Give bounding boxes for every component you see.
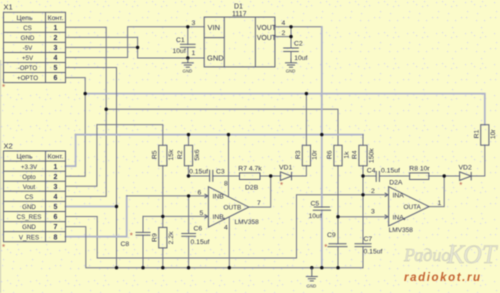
D1 labels <box>207 4 277 63</box>
ground under C1 <box>182 58 194 67</box>
resistor R4 labels <box>352 148 376 163</box>
svg-text:3: 3 <box>192 20 196 27</box>
capacitor C3 <box>210 170 213 182</box>
svg-text:R8 10r: R8 10r <box>409 165 430 172</box>
svg-text:5k6: 5k6 <box>194 149 201 160</box>
svg-text:Конт.: Конт. <box>48 15 64 22</box>
wire R3 top <box>305 94 307 146</box>
wire C4 right to R8 <box>379 175 409 177</box>
capacitor C1 <box>180 44 196 47</box>
resistor R7 <box>240 173 261 180</box>
svg-text:5: 5 <box>200 210 204 217</box>
capacitor C1 value <box>173 37 186 55</box>
wire GND X2.5 <box>66 206 117 208</box>
wire R2 bottom to C3 <box>189 166 210 176</box>
svg-text:КОТ: КОТ <box>446 240 498 269</box>
svg-text:D1: D1 <box>234 4 243 11</box>
svg-text:10uf: 10uf <box>173 48 186 55</box>
svg-text:2: 2 <box>54 35 58 42</box>
resistor R6 <box>334 145 342 166</box>
svg-text:C4: C4 <box>367 167 376 174</box>
svg-text:R2: R2 <box>177 150 184 159</box>
svg-text:GND: GND <box>22 224 36 231</box>
wire V_RES X2.8 to D2B pin6 <box>66 196 127 237</box>
scan edge artifact <box>0 60 1 293</box>
svg-text:6: 6 <box>54 214 58 221</box>
resistor R6 labels <box>327 150 351 159</box>
svg-text:3: 3 <box>54 45 58 52</box>
svg-text:10r: 10r <box>490 129 497 140</box>
resistor R2 labels <box>177 149 201 160</box>
capacitor C4 <box>376 171 379 182</box>
svg-text:C3: C3 <box>216 168 225 175</box>
svg-text:OUTA: OUTA <box>404 204 422 211</box>
svg-text:2: 2 <box>371 188 375 195</box>
svg-text:+: + <box>403 217 406 223</box>
wire INB- into pin 6 <box>127 195 207 197</box>
wire OPTO bus to R1 top <box>85 94 485 125</box>
svg-text:+5V: +5V <box>22 55 34 62</box>
op-amp D2B labels <box>213 184 260 226</box>
X1 pin numbers <box>54 25 58 82</box>
wire C2 riser <box>290 27 292 48</box>
svg-text:LMV358: LMV358 <box>389 227 414 234</box>
wire R7 right to VD1 anode <box>260 175 280 177</box>
svg-text:X2: X2 <box>4 142 13 151</box>
wire -OPTO X1.5 down to gnd rail <box>66 68 117 268</box>
svg-text:D2B: D2B <box>245 184 259 191</box>
svg-text:GND: GND <box>183 68 193 73</box>
svg-text:Цепь: Цепь <box>16 154 32 161</box>
svg-text:0.15uf: 0.15uf <box>381 167 400 174</box>
watermark Radio KOT <box>403 240 498 269</box>
capacitor C8 <box>136 232 151 235</box>
wire INB+ line <box>143 215 207 217</box>
capacitor C7 <box>355 244 372 247</box>
svg-text:0.15uf: 0.15uf <box>191 239 210 246</box>
svg-text:C1: C1 <box>176 37 185 44</box>
wire CS net to R6 top <box>106 109 338 145</box>
capacitor C5 <box>313 207 331 210</box>
svg-text:1117: 1117 <box>232 11 247 18</box>
svg-text:C5: C5 <box>311 200 320 207</box>
svg-text:*: * <box>280 181 283 190</box>
svg-text:R7 4.7k: R7 4.7k <box>238 165 262 172</box>
wire C9 bottom <box>337 247 339 268</box>
wire +3.3V bus to R4 top <box>76 134 363 136</box>
wire GND X1.2 to D1 GND <box>66 37 205 58</box>
wire VD2 cathode to R1 bottom <box>471 145 485 176</box>
svg-text:Opto: Opto <box>22 174 36 181</box>
wire C9 top riser <box>337 217 339 244</box>
svg-text:Vout: Vout <box>23 184 36 191</box>
X1 net names <box>17 25 38 82</box>
wire op-amp pin4 down <box>228 217 230 267</box>
capacitor C6 <box>181 234 196 237</box>
wire +3.3V X2.1 up <box>66 135 76 167</box>
svg-text:1: 1 <box>54 25 58 32</box>
svg-text:*: * <box>2 83 5 92</box>
svg-text:3: 3 <box>54 184 58 191</box>
svg-text:6: 6 <box>54 75 58 82</box>
capacitor C2 value <box>294 40 308 62</box>
svg-text:10uf: 10uf <box>309 213 322 220</box>
X2 net names <box>17 164 42 242</box>
svg-text:VIN: VIN <box>208 23 221 32</box>
wire CS_RES X2.6 to D2A pin2 <box>66 195 387 258</box>
X1 header <box>16 15 63 22</box>
wire C7 bottom <box>362 247 364 268</box>
svg-text:8: 8 <box>54 234 58 241</box>
op-amp D2B pin numbers <box>198 181 262 232</box>
ground under C2 <box>285 59 297 68</box>
resistor R2 <box>184 145 192 166</box>
svg-text:INB: INB <box>213 194 225 201</box>
svg-text:*: * <box>2 243 5 252</box>
resistor R3 labels <box>295 149 319 160</box>
svg-text:Радио: Радио <box>403 245 450 265</box>
svg-text:1: 1 <box>438 200 442 207</box>
svg-text:5: 5 <box>54 65 58 72</box>
svg-text:VD1: VD1 <box>279 164 292 171</box>
svg-text:GND: GND <box>21 35 35 42</box>
svg-text:+3.3V: +3.3V <box>21 164 38 171</box>
svg-text:4: 4 <box>54 55 58 62</box>
wire R5 bottom to node <box>162 166 164 217</box>
svg-text:R4: R4 <box>352 150 359 159</box>
wire R9 bottom <box>162 248 164 268</box>
wire VD1 cathode to R3 bottom <box>292 166 307 176</box>
svg-text:2.2k: 2.2k <box>168 231 175 244</box>
wire node to D2A pin3 <box>338 216 387 218</box>
svg-text:Цепь: Цепь <box>16 15 32 22</box>
svg-text:C8: C8 <box>121 241 130 248</box>
svg-text:10r: 10r <box>312 149 319 160</box>
svg-text:CS: CS <box>23 25 32 32</box>
wire OUTA pin1 up <box>429 176 444 207</box>
connector X2 table <box>4 151 66 242</box>
svg-text:CS: CS <box>25 194 34 201</box>
wire op-amp pin8 supply <box>228 135 230 197</box>
capacitor C5 labels <box>309 200 322 220</box>
wire C6 top riser <box>188 196 190 234</box>
wire C6 bottom <box>188 236 190 267</box>
svg-text:1k: 1k <box>343 151 350 159</box>
svg-text:R1: R1 <box>474 129 481 138</box>
wire R9 top stub <box>162 216 164 227</box>
connector X1 table <box>4 12 66 82</box>
svg-text:Конт.: Конт. <box>48 154 64 161</box>
resistor R9 labels <box>152 231 176 244</box>
svg-text:X1: X1 <box>4 3 13 12</box>
svg-text:0.15uf: 0.15uf <box>189 168 208 175</box>
X2 header <box>16 154 63 161</box>
wire C1 bottom stub <box>187 47 189 58</box>
wire node to C4 left <box>363 175 376 177</box>
resistor R1 labels <box>474 129 498 140</box>
svg-text:C6: C6 <box>194 225 203 232</box>
svg-text:V_RES: V_RES <box>19 234 39 241</box>
svg-text:+OPTO: +OPTO <box>17 75 38 82</box>
svg-text:10uf: 10uf <box>294 55 307 62</box>
wire R2 top stub <box>188 135 190 146</box>
svg-text:+: + <box>223 217 226 223</box>
resistor R4 <box>359 145 367 166</box>
svg-text:R9: R9 <box>152 233 159 242</box>
diode VD1 <box>280 172 291 181</box>
svg-text:C7: C7 <box>364 236 373 243</box>
capacitor C2 <box>283 48 299 52</box>
svg-text:D2A: D2A <box>389 179 403 186</box>
svg-text:R3: R3 <box>295 150 302 159</box>
capacitor C9 <box>328 244 348 247</box>
svg-text:LMV358: LMV358 <box>235 219 260 226</box>
svg-text:*: * <box>459 181 462 190</box>
wire OUTB pin7 up <box>249 176 271 207</box>
svg-text:0.15uf: 0.15uf <box>364 248 383 255</box>
resistor R5 labels <box>152 149 176 161</box>
svg-text:GND: GND <box>307 283 317 288</box>
wire +5V X1.4 to D1 VIN <box>66 27 205 58</box>
wire Vout X2.3 to R5 top <box>66 125 163 187</box>
svg-text:1: 1 <box>192 50 196 57</box>
svg-text:15k: 15k <box>168 149 175 161</box>
capacitor C7 labels <box>364 236 383 256</box>
svg-text:VOUT: VOUT <box>257 25 277 32</box>
resistor R3 <box>302 145 310 166</box>
svg-text:*: * <box>130 232 133 241</box>
svg-text:8: 8 <box>224 181 228 188</box>
svg-text:GND: GND <box>22 204 36 211</box>
wire R8 to VD2 anode <box>429 175 460 177</box>
capacitor C4 labels <box>367 167 400 174</box>
capacitor C3 labels <box>189 168 225 175</box>
svg-text:radiokot.ru: radiokot.ru <box>404 272 482 284</box>
wire X2.2 Opto up <box>66 94 86 177</box>
wire C5 bottom to gnd rail <box>321 210 323 267</box>
wire R6 bottom to node <box>337 166 339 217</box>
svg-text:INA: INA <box>393 192 405 199</box>
svg-text:7: 7 <box>54 224 58 231</box>
regulator D1 1117 box <box>204 17 275 67</box>
wire R4 bottom chain <box>362 166 364 244</box>
svg-text:2: 2 <box>54 174 58 181</box>
svg-text:*: * <box>324 243 327 252</box>
resistor R5 <box>159 145 167 166</box>
svg-text:VD2: VD2 <box>459 164 472 171</box>
op-amp U D2B triangle <box>205 187 249 228</box>
resistor R9 <box>159 227 167 248</box>
wire C8 top riser <box>142 216 144 232</box>
wire C3 right to R7 left <box>213 175 240 177</box>
svg-text:3: 3 <box>371 208 375 215</box>
op-amp U D2A triangle <box>385 187 429 226</box>
svg-text:4: 4 <box>224 224 228 231</box>
wire C2 bottom stub <box>290 52 292 59</box>
wire VOUT down to C5 <box>321 27 323 207</box>
svg-text:7: 7 <box>257 200 261 207</box>
wire -5V X1.3 join <box>66 46 138 48</box>
wire D1 VOUT pin2 <box>275 36 291 38</box>
svg-text:4: 4 <box>282 20 286 27</box>
capacitor C6 labels <box>191 225 210 246</box>
wire X1.6 +OPTO down <box>66 78 86 94</box>
wire CS net X1.1 down <box>66 27 107 109</box>
svg-text:6: 6 <box>198 189 202 196</box>
resistor R8 <box>410 173 429 180</box>
svg-text:R6: R6 <box>327 150 334 159</box>
svg-text:OUTB: OUTB <box>224 205 242 212</box>
svg-text:GND: GND <box>207 54 224 63</box>
wire C1 riser <box>187 27 189 45</box>
svg-text:GND: GND <box>286 68 296 73</box>
svg-text:150k: 150k <box>368 148 375 163</box>
svg-text:-5V: -5V <box>23 45 34 52</box>
wire R4 top stub <box>362 135 364 146</box>
wire GND X2.7 to gnd rail <box>66 227 363 268</box>
X2 pin numbers <box>54 164 58 242</box>
svg-text:5: 5 <box>54 204 58 211</box>
svg-text:C2: C2 <box>294 40 303 47</box>
svg-text:C9: C9 <box>327 232 336 239</box>
op-amp D2A pin numbers <box>371 188 442 216</box>
op-amp D2A labels <box>389 179 422 234</box>
resistor R1 <box>481 125 489 146</box>
svg-text:-OPTO: -OPTO <box>18 65 38 72</box>
svg-text:VOUT: VOUT <box>257 35 277 42</box>
D1 pin numbers <box>192 20 286 57</box>
svg-text:2: 2 <box>282 30 286 37</box>
ground bottom rail <box>306 268 318 281</box>
svg-text:1: 1 <box>54 164 58 171</box>
wire C8 bottom <box>142 235 144 268</box>
diode VD2 <box>460 172 472 181</box>
svg-text:CS_RES: CS_RES <box>17 214 42 221</box>
wire D1 VOUT pin4 <box>275 26 322 28</box>
svg-text:R5: R5 <box>152 150 159 159</box>
svg-text:4: 4 <box>54 194 58 201</box>
wire CS net X2.4 up <box>66 109 107 196</box>
